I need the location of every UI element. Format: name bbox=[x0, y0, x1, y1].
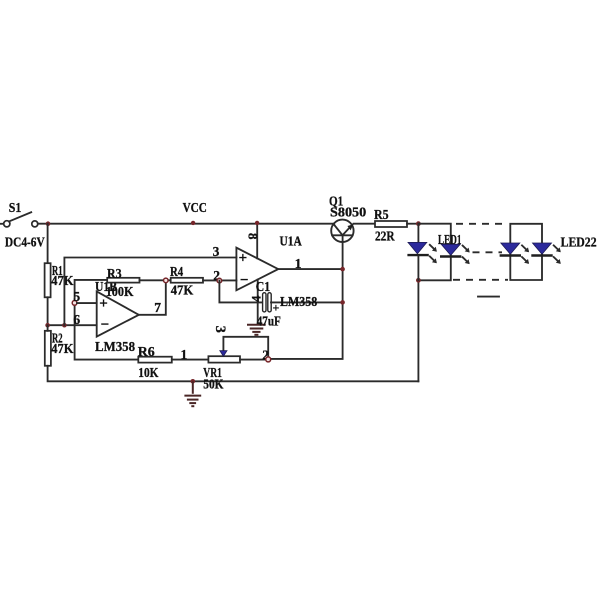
wire VCC rail left stub bbox=[0, 223, 4, 225]
label 3 rotated (VR1 pin) bbox=[212, 326, 228, 333]
svg-text:VCC: VCC bbox=[183, 200, 207, 215]
node R3/R4/pin7 ring bbox=[164, 278, 169, 283]
svg-text:47K: 47K bbox=[51, 274, 73, 289]
svg-text:S8050: S8050 bbox=[330, 205, 366, 220]
svg-text:U1A: U1A bbox=[280, 234, 302, 249]
svg-text:R3: R3 bbox=[107, 267, 122, 282]
VR1 wiper arrow bbox=[220, 351, 227, 357]
op-amp U1A bbox=[236, 248, 278, 291]
svg-text:8: 8 bbox=[246, 233, 261, 240]
node R1-R2 junction bbox=[45, 323, 50, 328]
node emitter/output junction bbox=[340, 267, 345, 272]
svg-text:3: 3 bbox=[213, 244, 220, 259]
wire U1A pin4 down to ground bbox=[257, 280, 259, 323]
op-amp U1B bbox=[97, 292, 139, 337]
svg-text:LM358: LM358 bbox=[280, 295, 317, 310]
wire R3 right to R4 left bbox=[140, 279, 171, 281]
svg-text:22R: 22R bbox=[375, 229, 395, 244]
svg-text:4: 4 bbox=[248, 295, 263, 302]
node feedback junction bbox=[62, 323, 67, 328]
wire VR1 wiper loop bbox=[223, 337, 268, 357]
wire C1 right to emitter line bbox=[271, 301, 343, 303]
svg-text:100K: 100K bbox=[106, 285, 134, 300]
resistor R1 bbox=[45, 263, 51, 297]
svg-text:5: 5 bbox=[73, 289, 80, 304]
node pin5 ring bbox=[72, 301, 77, 306]
svg-text:R4: R4 bbox=[170, 265, 183, 280]
svg-text:C1: C1 bbox=[256, 279, 271, 294]
transistor Q1 bbox=[331, 220, 353, 242]
ground under bottom rail bbox=[184, 381, 201, 406]
node VR1 pin2 ring bbox=[266, 357, 271, 362]
wire feedback riser to U1A pin3 bbox=[64, 258, 236, 326]
svg-text:LED22: LED22 bbox=[561, 234, 597, 249]
resistor R2 bbox=[45, 331, 51, 366]
wire R2 bottom to ground rail bbox=[48, 366, 419, 382]
svg-text:50K: 50K bbox=[203, 377, 223, 392]
resistor R3 bbox=[107, 278, 139, 283]
wire pin2 node down and right to C1 bbox=[219, 281, 263, 303]
svg-text:S1: S1 bbox=[9, 201, 22, 216]
LED4 diode bbox=[531, 243, 552, 256]
svg-text:47K: 47K bbox=[171, 283, 194, 298]
wire dashed middle continuation bbox=[473, 251, 503, 253]
svg-text:−: − bbox=[240, 273, 249, 289]
wire pin5 branch: corner to R3 and down to R6 bbox=[75, 280, 139, 360]
wire LED column 1 frame bbox=[418, 224, 450, 382]
svg-text:1: 1 bbox=[181, 347, 188, 362]
label 4 rotated bbox=[248, 295, 263, 302]
svg-text:3: 3 bbox=[212, 326, 228, 333]
svg-text:−: − bbox=[101, 317, 110, 333]
battery minus mark bbox=[478, 296, 499, 298]
svg-text:6: 6 bbox=[73, 312, 80, 327]
LED1 diode bbox=[407, 224, 428, 281]
wire R5 to LED node bbox=[407, 223, 418, 225]
node LED top junction bbox=[416, 221, 421, 226]
wire Q1 collector to R5 bbox=[354, 223, 375, 225]
node VCC label junction bbox=[191, 221, 195, 225]
wire Q1 emitter down to VR1 wire bbox=[271, 242, 343, 359]
capacitor C1 bbox=[263, 293, 272, 312]
svg-text:47uF: 47uF bbox=[257, 314, 281, 329]
svg-text:7: 7 bbox=[154, 300, 161, 315]
wire R2 top bbox=[47, 325, 49, 331]
wire pin6 input rail bbox=[48, 324, 97, 326]
wire R6 to VR1 bbox=[172, 359, 209, 361]
wire VCC rail bbox=[38, 223, 334, 225]
svg-text:R6: R6 bbox=[138, 345, 155, 360]
ground under C1 bbox=[247, 325, 266, 335]
svg-text:47K: 47K bbox=[51, 342, 73, 357]
svg-text:+: + bbox=[239, 250, 248, 266]
LED3 diode bbox=[500, 243, 521, 256]
wire U1B output pin7 up to R3/R4 node bbox=[139, 280, 166, 314]
wire R4 right to U1A minus bbox=[203, 279, 236, 281]
svg-text:LM358: LM358 bbox=[95, 340, 135, 355]
label 8 rotated bbox=[246, 233, 261, 240]
svg-text:DC4-6V: DC4-6V bbox=[5, 234, 45, 249]
node pin8 junction bbox=[255, 221, 259, 225]
node emitter/C1 junction bbox=[340, 300, 345, 305]
resistor R5 bbox=[375, 221, 407, 227]
LED3 emission arrows bbox=[522, 245, 529, 264]
wire dashed bottom continuation bbox=[453, 279, 508, 281]
wire LED column 2 frame bbox=[510, 224, 542, 280]
node pin2 ring bbox=[217, 278, 222, 283]
wire U1A pin8 from VCC rail bbox=[256, 223, 258, 258]
svg-text:10K: 10K bbox=[138, 366, 158, 381]
LED4 emission arrows bbox=[554, 245, 561, 264]
wire pin5 to U1B plus input bbox=[77, 302, 97, 304]
switch S1 bbox=[4, 212, 38, 227]
svg-text:1: 1 bbox=[295, 256, 302, 271]
LED2 emission arrows bbox=[463, 246, 470, 265]
LED2 diode bbox=[440, 244, 461, 256]
node LED bottom junction bbox=[416, 278, 421, 283]
resistor R4 bbox=[171, 278, 203, 283]
wire R1 bottom to node bbox=[47, 297, 49, 325]
wire VR1 right to node 2 bbox=[240, 359, 266, 361]
node switch junction bbox=[46, 221, 51, 226]
LED1 emission arrows bbox=[430, 245, 437, 263]
wire U1A output pin1 bbox=[278, 268, 342, 270]
wire from switch node down to R1 bbox=[47, 224, 49, 264]
resistor R6 bbox=[138, 357, 172, 363]
wire dashed top continuation bbox=[456, 223, 508, 225]
potentiometer VR1 bbox=[208, 356, 240, 362]
node ground rail junction bbox=[191, 379, 196, 384]
svg-text:R5: R5 bbox=[374, 208, 389, 223]
